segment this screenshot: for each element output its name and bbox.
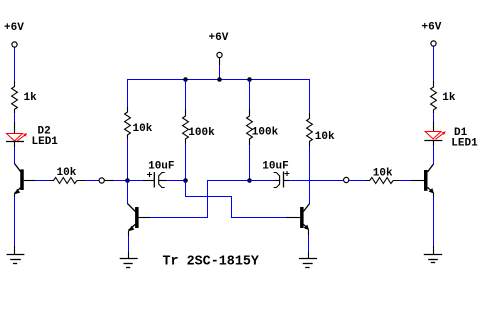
svg-text:10k: 10k bbox=[315, 131, 335, 143]
wire terminal to R7 bbox=[349, 180, 366, 182]
wire node A to Q2 collector bbox=[127, 181, 129, 205]
LED D2 bbox=[6, 122, 58, 148]
terminal left output bbox=[99, 178, 104, 183]
terminal +6V center bbox=[217, 52, 222, 57]
wire Q3 emitter to ground bbox=[308, 235, 310, 259]
svg-text:+6V: +6V bbox=[4, 22, 24, 34]
wire D1 to Q4 collector bbox=[433, 146, 435, 165]
node +6V center label bbox=[209, 32, 229, 44]
junction node B bbox=[183, 178, 188, 183]
junction node A bbox=[125, 178, 130, 183]
wire bus to R6 bbox=[309, 79, 311, 113]
wire Q2 emitter to ground bbox=[128, 236, 130, 259]
resistor R3 100k bbox=[183, 110, 216, 144]
wire +6V bus bbox=[127, 79, 310, 81]
wire Q1 base to R5 bbox=[35, 180, 50, 182]
wire D2 to Q1 collector bbox=[14, 147, 16, 164]
wire +6V center to bus bbox=[219, 58, 221, 80]
ground Q3 bbox=[299, 259, 317, 268]
wire Q1 emitter to ground bbox=[14, 197, 16, 255]
junction bus R4 bbox=[247, 77, 252, 82]
wire terminal to node A bbox=[104, 180, 127, 182]
junction bus +6V bbox=[217, 77, 222, 82]
transistor Q3 bbox=[286, 204, 310, 235]
wire Q4 emitter to ground bbox=[433, 197, 435, 255]
wire bus to R3 bbox=[185, 80, 187, 110]
svg-text:+6V: +6V bbox=[422, 22, 442, 34]
ground Q4 bbox=[424, 255, 442, 263]
svg-text:100k: 100k bbox=[188, 127, 215, 139]
wire R4 to node C bbox=[249, 145, 251, 180]
resistor R4 100k bbox=[247, 110, 279, 146]
junction node C bbox=[247, 178, 252, 183]
ground Q2 bbox=[120, 259, 138, 268]
transistor Q2 bbox=[128, 204, 151, 236]
svg-text:10k: 10k bbox=[133, 123, 153, 135]
resistor R1 1k bbox=[12, 81, 38, 113]
svg-text:10uF: 10uF bbox=[262, 161, 288, 173]
capacitor C1 10uF bbox=[128, 161, 186, 188]
wire node B to Q3 base bbox=[186, 181, 287, 218]
svg-text:10k: 10k bbox=[57, 167, 77, 179]
wire R7 to Q4 base bbox=[400, 180, 424, 182]
svg-text:10k: 10k bbox=[373, 167, 393, 179]
wire R6 to Q3 collector bbox=[309, 146, 311, 204]
svg-text:1k: 1k bbox=[442, 92, 456, 104]
terminal right output bbox=[344, 177, 349, 182]
wire bus to R2 bbox=[127, 79, 129, 107]
transistor Q1 bbox=[15, 164, 36, 198]
svg-text:+6V: +6V bbox=[209, 32, 229, 44]
wire bus to R4 bbox=[249, 80, 251, 110]
svg-text:1k: 1k bbox=[24, 92, 38, 104]
capacitor C2 10uF bbox=[250, 161, 344, 188]
LED D1 bbox=[424, 122, 478, 150]
resistor R5 10k bbox=[50, 167, 86, 184]
wire R5 to terminal bbox=[86, 180, 100, 182]
label Tr 2SC-1815Y bbox=[163, 255, 260, 270]
wire R1 to D2 bbox=[14, 113, 16, 122]
wire node C to Q2 base bbox=[150, 181, 250, 218]
wire R2 to node A bbox=[127, 139, 129, 181]
wire terminal to R8 bbox=[433, 46, 435, 81]
resistor R6 10k bbox=[307, 113, 335, 146]
svg-text:Tr 2SC-1815Y: Tr 2SC-1815Y bbox=[163, 255, 260, 270]
wire R8 to D1 bbox=[433, 113, 435, 122]
resistor R7 10k bbox=[366, 167, 400, 183]
terminal +6V left bbox=[12, 42, 17, 47]
terminal +6V right bbox=[431, 41, 436, 46]
svg-text:100k: 100k bbox=[252, 127, 279, 139]
node +6V right label bbox=[422, 22, 442, 34]
wire R3 to node B bbox=[185, 144, 187, 181]
svg-text:LED1: LED1 bbox=[451, 138, 478, 150]
node +6V left label bbox=[4, 22, 24, 34]
svg-text:LED1: LED1 bbox=[32, 136, 59, 148]
ground Q1 bbox=[7, 255, 25, 264]
resistor R2 10k bbox=[125, 107, 153, 139]
resistor R8 1k bbox=[431, 81, 456, 113]
transistor Q4 bbox=[424, 164, 434, 197]
wire terminal to R1 bbox=[14, 47, 16, 81]
svg-text:10uF: 10uF bbox=[148, 161, 174, 173]
junction bus R3 bbox=[183, 77, 188, 82]
